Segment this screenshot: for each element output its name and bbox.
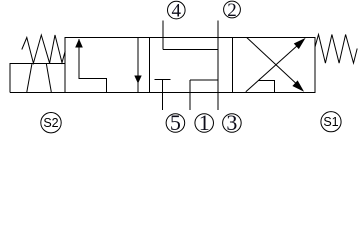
port 4 stub bbox=[162, 21, 164, 38]
svg-text:4: 4 bbox=[172, 1, 182, 22]
center box: port4 entry line bbox=[162, 38, 164, 50]
solenoid diagonal left bbox=[27, 64, 32, 93]
valve body outer rectangle bbox=[65, 38, 315, 93]
position divider 2 bbox=[232, 38, 234, 93]
spring right bbox=[315, 35, 357, 64]
right box: down-right arrow head bbox=[292, 80, 304, 91]
svg-text:1: 1 bbox=[199, 110, 210, 135]
left box: down arrow stem bbox=[137, 38, 139, 93]
svg-text:S2: S2 bbox=[43, 116, 58, 130]
right box: down-right arrow shaft bbox=[247, 38, 302, 89]
center box: horizontal 4-to-2 link bbox=[163, 49, 218, 51]
right box: step connector bbox=[259, 81, 275, 93]
solenoid box S2 (left) bbox=[10, 64, 65, 93]
position divider 1 bbox=[149, 38, 151, 93]
center box: blocked port5 T-bar bbox=[155, 79, 171, 81]
svg-text:5: 5 bbox=[170, 110, 181, 135]
svg-text:3: 3 bbox=[226, 110, 237, 135]
right box: up-right arrow head bbox=[294, 38, 306, 49]
port 1 stub bbox=[189, 93, 191, 111]
center box: horizontal 1 link bbox=[190, 79, 218, 81]
port 5 stub bbox=[162, 93, 164, 111]
port label 4 bbox=[168, 1, 186, 22]
center box: port1 entry line bbox=[189, 80, 191, 93]
right box: up-right arrow shaft bbox=[246, 41, 303, 92]
port 3 stub bbox=[217, 93, 219, 111]
svg-text:S1: S1 bbox=[323, 115, 338, 129]
port label 3 bbox=[223, 110, 242, 135]
left box: down arrow head bbox=[134, 76, 141, 84]
left box: up arrow head bbox=[75, 39, 83, 48]
solenoid label S2 bbox=[41, 113, 61, 133]
port 2 stub bbox=[217, 21, 219, 38]
svg-text:2: 2 bbox=[227, 0, 237, 21]
center box: blocked port5 stem bbox=[162, 80, 164, 93]
port label 1 bbox=[195, 110, 214, 135]
left box: up arrow stem bbox=[78, 39, 80, 79]
solenoid diagonal right bbox=[46, 64, 51, 93]
left box: step connector bbox=[79, 79, 107, 93]
spring left bbox=[22, 35, 65, 63]
solenoid label S1 bbox=[321, 112, 341, 132]
center box: vertical 2-3 through line bbox=[217, 38, 219, 93]
port label 5 bbox=[166, 110, 185, 135]
port label 2 bbox=[224, 0, 241, 21]
